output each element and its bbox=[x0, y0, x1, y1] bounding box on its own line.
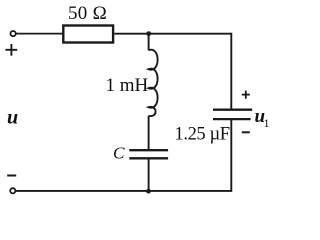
wire right vertical upper bbox=[230, 33, 232, 110]
junction dot bottom bbox=[146, 189, 151, 194]
svg-text:50 Ω: 50 Ω bbox=[68, 3, 107, 24]
svg-text:u: u bbox=[7, 107, 18, 129]
wire top-left bbox=[16, 33, 63, 35]
minus sign u1 bbox=[242, 131, 250, 133]
svg-text:1 mH: 1 mH bbox=[106, 75, 149, 96]
minus sign source bbox=[7, 175, 16, 177]
wire right vertical lower bbox=[230, 120, 232, 192]
svg-text:1.25 µF: 1.25 µF bbox=[175, 124, 230, 144]
wire inductor to cap C bbox=[148, 116, 150, 149]
capacitor C bbox=[129, 150, 168, 158]
inductor 1 mH bbox=[149, 50, 158, 116]
plus sign u1 bbox=[242, 91, 250, 99]
junction dot top bbox=[146, 31, 151, 36]
capacitor 1.25 uF bbox=[213, 110, 252, 119]
terminal top-left bbox=[11, 31, 16, 36]
plus sign source bbox=[6, 44, 18, 56]
svg-text:1: 1 bbox=[264, 116, 270, 130]
svg-text:C: C bbox=[113, 143, 125, 162]
terminal bottom-left bbox=[10, 188, 15, 193]
wire cap C to bottom bbox=[148, 159, 150, 191]
wire top rail bbox=[114, 33, 231, 35]
wire middle drop bbox=[148, 34, 150, 51]
resistor R 50 ohm bbox=[63, 26, 113, 43]
wire bottom rail bbox=[16, 190, 233, 192]
